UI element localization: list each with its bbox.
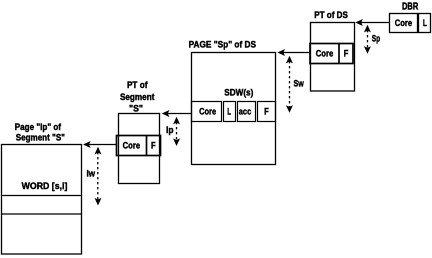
label SDW(s) <box>224 87 253 98</box>
svg-text:Iw: Iw <box>87 168 96 179</box>
svg-text:Page "Ip" of: Page "Ip" of <box>15 122 62 133</box>
svg-text:Segment "S": Segment "S" <box>16 132 65 143</box>
wire PT of DS Core to PAGE Sp <box>277 49 310 56</box>
entry Core|F in PT of DS <box>310 44 353 64</box>
arrow Iw (dashed offset) <box>97 152 99 200</box>
svg-text:Core: Core <box>199 107 216 118</box>
svg-text:Ip: Ip <box>166 125 174 136</box>
entry Core|F in PT of Segment <box>117 136 161 156</box>
svg-text:PT of: PT of <box>127 80 148 91</box>
svg-text:Segment: Segment <box>120 92 155 103</box>
label DBR <box>402 1 419 12</box>
label Ip <box>166 125 174 136</box>
label PAGE "Sp" of DS <box>189 40 256 51</box>
box Page "Ip" of Segment "S" <box>2 145 82 255</box>
wire PT of Segment Core to Page box <box>83 141 117 148</box>
svg-text:Core: Core <box>316 49 334 60</box>
svg-text:Core: Core <box>395 18 412 29</box>
svg-text:L: L <box>423 18 427 29</box>
box PT of DS <box>311 23 355 92</box>
label WORD [s,i] <box>22 181 68 192</box>
box PT of Segment "S" <box>119 114 160 184</box>
svg-text:F: F <box>264 107 269 118</box>
entry row SDW: cells Core | L | acc | F <box>192 102 276 122</box>
label PT of Segment "S" <box>120 80 155 114</box>
arrow Sw (dashed offset) <box>289 61 291 108</box>
arrow Ip (dashed offset) <box>176 122 178 141</box>
wire DBR to PT of DS <box>355 19 389 26</box>
box PAGE "Sp" of DS <box>192 53 276 165</box>
svg-text:Sw: Sw <box>294 79 305 90</box>
svg-text:Sp: Sp <box>372 33 381 44</box>
svg-text:acc: acc <box>239 107 252 118</box>
svg-text:F: F <box>151 140 156 151</box>
label Sp <box>372 33 381 44</box>
svg-text:Core: Core <box>123 140 141 151</box>
wire SDW Core to PT of Segment <box>162 110 192 117</box>
label Page "Ip" of Segment "S" <box>15 122 65 143</box>
svg-text:PT of DS: PT of DS <box>314 10 348 21</box>
label Iw <box>87 168 96 179</box>
svg-text:DBR: DBR <box>402 1 419 12</box>
svg-text:WORD [s,i]: WORD [s,i] <box>22 181 68 192</box>
svg-text:F: F <box>344 49 349 60</box>
label PT of DS <box>314 10 348 21</box>
svg-text:SDW(s): SDW(s) <box>224 87 253 98</box>
register DBR (Core | L) <box>390 14 431 33</box>
arrow Sp (dashed offset) <box>367 30 369 49</box>
svg-text:L: L <box>227 107 231 118</box>
svg-text:PAGE "Sp" of DS: PAGE "Sp" of DS <box>189 40 256 51</box>
label Sw <box>294 79 305 90</box>
